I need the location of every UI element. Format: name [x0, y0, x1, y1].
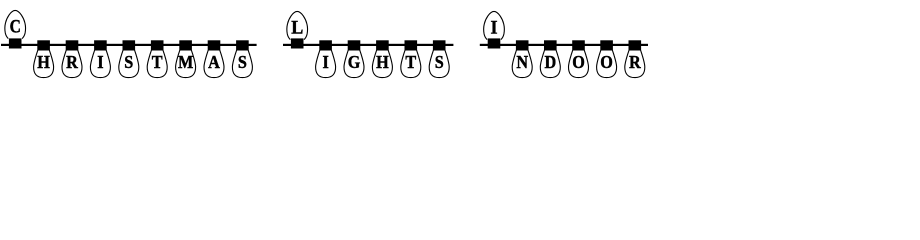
- raised bulb lamp: letter C of "Christmas": [5, 10, 26, 48]
- svg-text:C: C: [10, 16, 21, 37]
- hanging bulb lamp: letter I of "Christmas": [90, 40, 110, 77]
- raised bulb lamp: letter I of "Indoor": [484, 11, 505, 48]
- svg-text:H: H: [376, 52, 389, 72]
- svg-text:T: T: [152, 52, 163, 72]
- hanging bulb lamp: letter S of "Lights": [429, 40, 449, 77]
- svg-text:L: L: [291, 17, 303, 39]
- hanging bulb lamp: letter S of "Christmas": [232, 40, 252, 77]
- svg-text:S: S: [238, 52, 247, 72]
- wire for word "Indoor": [480, 44, 648, 46]
- wire for word "Lights": [283, 44, 453, 46]
- hanging bulb lamp: letter R of "Christmas": [62, 40, 82, 77]
- hanging bulb lamp: letter T of "Christmas": [147, 40, 167, 77]
- svg-text:H: H: [37, 52, 50, 72]
- svg-text:D: D: [544, 52, 556, 72]
- hanging bulb lamp: letter S of "Christmas": [119, 40, 139, 77]
- raised bulb lamp: letter L of "Lights": [287, 11, 308, 48]
- svg-text:I: I: [490, 17, 497, 39]
- svg-text:G: G: [348, 52, 361, 72]
- hanging bulb lamp: letter O of "Indoor": [597, 40, 617, 77]
- svg-text:S: S: [435, 52, 444, 72]
- svg-text:I: I: [322, 52, 329, 72]
- hanging bulb lamp: letter H of "Lights": [372, 40, 392, 77]
- hanging bulb lamp: letter I of "Lights": [316, 40, 336, 77]
- svg-text:R: R: [66, 52, 78, 72]
- svg-text:O: O: [572, 52, 585, 72]
- hanging bulb lamp: letter T of "Lights": [401, 40, 421, 77]
- hanging bulb lamp: letter R of "Indoor": [625, 40, 645, 77]
- hanging bulb lamp: letter A of "Christmas": [204, 40, 224, 77]
- svg-text:T: T: [405, 52, 416, 72]
- hanging bulb lamp: letter N of "Indoor": [512, 40, 532, 77]
- svg-text:R: R: [629, 52, 641, 72]
- hanging bulb lamp: letter D of "Indoor": [540, 40, 560, 77]
- hanging bulb lamp: letter G of "Lights": [344, 40, 364, 77]
- svg-text:S: S: [124, 52, 133, 72]
- hanging bulb lamp: letter O of "Indoor": [568, 40, 588, 77]
- svg-text:N: N: [516, 52, 528, 72]
- wire for word "Christmas": [1, 44, 257, 46]
- svg-text:A: A: [208, 52, 220, 72]
- hanging bulb lamp: letter H of "Christmas": [34, 40, 54, 77]
- svg-text:O: O: [600, 52, 613, 72]
- hanging bulb lamp: letter M of "Christmas": [176, 40, 196, 77]
- svg-text:I: I: [97, 52, 104, 72]
- svg-text:M: M: [178, 52, 193, 72]
